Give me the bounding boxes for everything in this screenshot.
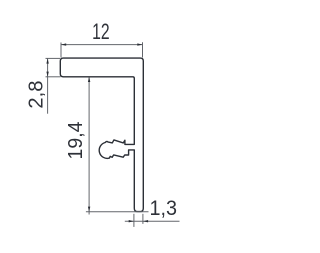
svg-text:2,8: 2,8 — [26, 81, 48, 109]
svg-text:19,4: 19,4 — [64, 121, 87, 159]
svg-text:12: 12 — [92, 19, 110, 44]
svg-text:1,3: 1,3 — [150, 196, 178, 220]
